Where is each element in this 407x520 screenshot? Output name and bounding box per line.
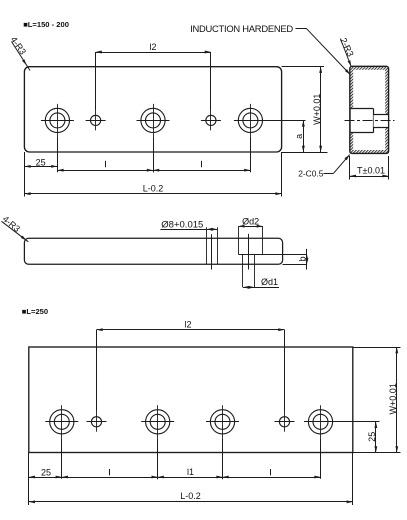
dimension L-0.2 (view1) xyxy=(24,193,281,195)
dimension W+0.01 (view1) xyxy=(320,67,322,152)
pin center line xyxy=(248,234,250,270)
bottom edge extension right xyxy=(282,152,328,154)
ext holeD down xyxy=(320,438,322,479)
pin through right wall xyxy=(374,114,388,127)
label l xyxy=(201,161,203,167)
label l xyxy=(105,161,107,167)
svg-text:L-0.2: L-0.2 xyxy=(143,184,164,194)
side view outline xyxy=(350,66,389,153)
pin d1 edges xyxy=(242,254,244,287)
svg-text:l2: l2 xyxy=(149,42,156,52)
holeD horizontal ext right xyxy=(337,421,380,423)
top edge extension right xyxy=(282,66,324,68)
bar bottom extension for b xyxy=(283,264,307,266)
extension hole3 down xyxy=(250,137,252,172)
extension hole1 down xyxy=(57,137,59,172)
extension line small hole1 up xyxy=(95,52,97,110)
svg-text:L-0.2: L-0.2 xyxy=(180,491,201,501)
dimension l segments (view1) xyxy=(57,170,250,172)
label l xyxy=(270,469,272,475)
label 4-R3 (view1) with leader xyxy=(12,42,31,71)
svg-text:T±0.01: T±0.01 xyxy=(357,166,385,176)
hatched hardened band (side section view) xyxy=(350,66,389,153)
dimension l2 (view1) xyxy=(96,52,211,54)
ext small holeA up xyxy=(96,330,98,412)
extension hole2 down xyxy=(153,137,155,172)
svg-text:2-C0.5: 2-C0.5 xyxy=(298,169,323,179)
label 4-R3 (view2) with leader xyxy=(2,221,29,242)
right edge extension down xyxy=(281,152,283,197)
svg-text:Ø8+0.015: Ø8+0.015 xyxy=(161,219,203,230)
extension line small hole2 up xyxy=(210,52,212,110)
right edge ext down xyxy=(352,453,354,506)
counterbored hole 3 xyxy=(238,108,262,132)
dimensions l, l1, l (view3) xyxy=(62,477,321,479)
label l xyxy=(109,469,111,475)
ext holeA down xyxy=(61,438,63,479)
center line side view xyxy=(345,120,395,122)
small hole 2 xyxy=(206,115,216,125)
dimension a xyxy=(303,120,305,152)
svg-text:W+0.01: W+0.01 xyxy=(388,383,398,414)
svg-text:25: 25 xyxy=(36,157,46,167)
small hole 1 xyxy=(91,115,101,125)
dimension W+0.01 (view3) xyxy=(396,347,398,453)
top edge ext right xyxy=(353,347,401,349)
dimension l2 (view3) xyxy=(97,329,285,331)
hole center line xyxy=(211,234,213,269)
ext holeB down xyxy=(157,438,159,479)
svg-text:INDUCTION HARDENED: INDUCTION HARDENED xyxy=(190,23,293,34)
dimension 25 (view3 bottom) xyxy=(29,477,62,479)
hole Ø8 edge lines xyxy=(206,227,208,264)
svg-text:l2: l2 xyxy=(184,320,191,330)
dimension Ød1 xyxy=(243,287,279,289)
counterbored hole 2 xyxy=(141,108,165,132)
counterbored hole C xyxy=(210,410,234,434)
svg-text:W+0.01: W+0.01 xyxy=(312,94,322,125)
svg-text:■L=150 - 200: ■L=150 - 200 xyxy=(23,20,69,29)
counterbored hole B xyxy=(146,410,170,434)
bar outline (edge view) xyxy=(24,238,282,264)
hole3 horizontal extension right xyxy=(267,120,306,122)
counterbored hole 1 xyxy=(45,108,69,132)
dimension T±0.01 xyxy=(349,156,351,180)
label 2-R3 with leader xyxy=(340,39,351,67)
boss bottom edge + b extension xyxy=(238,254,307,256)
counterbored hole D xyxy=(308,410,332,434)
dimension 25 (view1) xyxy=(24,166,57,168)
ext small holeB up xyxy=(284,330,286,412)
left edge extension down xyxy=(24,152,26,197)
svg-text:l1: l1 xyxy=(187,467,194,477)
left edge ext down xyxy=(28,453,30,506)
svg-text:25: 25 xyxy=(41,467,51,477)
dimension b xyxy=(306,249,308,270)
counterbored hole A xyxy=(50,410,74,434)
svg-text:a: a xyxy=(294,134,304,139)
dimension 25 vertical (view3) xyxy=(375,422,377,453)
svg-text:Ød1: Ød1 xyxy=(261,277,278,287)
svg-text:Ød2: Ød2 xyxy=(242,216,259,226)
svg-text:b: b xyxy=(298,256,308,261)
pin bore tab xyxy=(350,109,374,133)
dimension L-0.2 (view3) xyxy=(29,501,353,503)
bottom edge ext right xyxy=(353,452,401,454)
plate outline (L=150-200 front view) xyxy=(24,67,281,152)
small hole A xyxy=(91,417,101,427)
small hole B xyxy=(279,417,289,427)
ext holeC down xyxy=(222,438,224,479)
svg-text:25: 25 xyxy=(367,432,377,442)
pin boss d2 edges xyxy=(238,226,240,254)
svg-text:■L=250: ■L=250 xyxy=(22,307,48,316)
plate outline (L=250 front view) xyxy=(29,347,353,453)
